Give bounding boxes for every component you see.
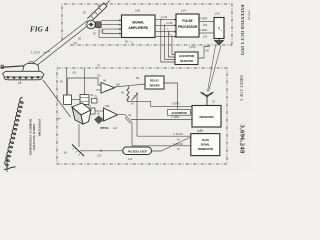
svg-text:D: D [169,33,171,36]
svg-text:114: 114 [181,9,186,13]
acquisition detector box 134 [175,52,198,65]
beam from enclosure into collimator [84,68,86,95]
pulsed laser [123,147,152,155]
svg-text:ROBERT S. CUNNINGHAM: ROBERT S. CUNNINGHAM [29,119,32,155]
svg-text:A 126: A 126 [161,16,168,19]
relay coil 86 [127,87,129,102]
pitch amp feed box [90,108,96,114]
detector output wires into amplifiers [99,20,122,37]
P SCAN wire [132,145,191,147]
svg-text:SIGNAL: SIGNAL [132,20,144,24]
signal amplifiers box 108 [122,15,156,38]
inventor signature script [5,97,24,166]
pulse processor box 114 [176,14,199,37]
svg-text:124: 124 [97,155,102,158]
receive antenna 52 [201,92,214,106]
svg-text:L.O.S.: L.O.S. [31,51,41,55]
P ERR wire [131,119,192,121]
svg-text:SCAN: SCAN [202,138,209,142]
photodetector box 90 [64,95,72,105]
acquisition boxed label [168,110,191,116]
wire detector to collimator [72,99,81,101]
svg-text:SIGNAL: SIGNAL [201,142,211,146]
wires amplifiers to pulse processor with taps [155,20,175,62]
svg-text:PITCH: PITCH [101,126,109,130]
svg-text:(74: (74 [73,41,77,45]
seeker telescope tube 56 [87,1,110,23]
svg-text:INVENTORS.: INVENTORS. [38,118,42,137]
svg-text:56: 56 [97,4,101,8]
svg-text:SHEET 2 OF 5: SHEET 2 OF 5 [239,75,243,101]
svg-text:60: 60 [125,40,129,44]
svg-text:136: 136 [205,50,210,53]
gimbal 54 [87,20,96,29]
svg-text:ACQUISITION: ACQUISITION [171,112,187,115]
svg-text:(54: (54 [197,129,201,133]
svg-text:V ERR: V ERR [172,102,180,106]
transmit antenna [215,39,224,45]
wires pulse processor to transmitter [199,22,214,34]
svg-text:122: 122 [128,158,133,161]
modulator cell 75 [92,99,98,104]
pitch amp output wires [118,115,133,146]
deflection mirror chip 46 [95,116,104,124]
svg-text:84: 84 [136,76,140,80]
svg-text:GENERATOR: GENERATOR [198,147,214,151]
svg-text:(134: (134 [190,45,196,49]
svg-text:130: 130 [215,12,220,16]
svg-text:P ERR: P ERR [172,115,180,119]
relay driver output to acquisition line [164,83,192,113]
switch arm and vertical to V SCAN [136,94,138,137]
svg-text:104: 104 [116,83,121,87]
relay driver box 84 [145,76,164,89]
svg-text:RECEIVER: RECEIVER [200,115,215,119]
line of sight beams tank to seeker [34,21,88,63]
svg-text:P ERR: P ERR [200,17,208,21]
svg-text:ACQUISITION: ACQUISITION [179,55,195,58]
photodetector wire from enclosure [66,68,68,95]
command link beams [209,46,222,92]
laser trigger wire [152,137,191,151]
acquisition detector output wire [198,47,210,59]
wire coil to V ERR line [128,101,192,106]
svg-text:DETECTOR: DETECTOR [180,60,193,63]
svg-text:PULSE: PULSE [182,19,192,23]
svg-text:106: 106 [105,104,110,108]
svg-text:18: 18 [18,81,22,85]
svg-text:V ERR: V ERR [200,28,208,32]
collimating lens cell 40 [80,95,89,105]
svg-text:PULSED LASER: PULSED LASER [128,150,147,154]
wire yaw amp to relay driver [115,84,146,87]
svg-text:158: 158 [203,35,208,38]
folding mirror 66 [72,145,84,157]
svg-text:FIG 4: FIG 4 [30,27,49,34]
svg-text:RELAY: RELAY [150,79,159,83]
pitch amplifier op-amp 106 [104,108,118,121]
scan signal generator box 154 [191,134,220,156]
svg-text:44: 44 [58,117,62,121]
svg-text:120: 120 [113,127,118,130]
laser beam to tank [43,80,71,117]
svg-text:156: 156 [203,24,208,27]
svg-text:PROCESSOR: PROCESSOR [178,25,198,29]
yaw amplifier op-amp 98 [101,83,115,94]
scanning prism 44 [72,103,91,124]
svg-text:S 128: S 128 [166,22,173,25]
svg-text:V SCAN: V SCAN [174,133,184,136]
ground unit dashed enclosure [57,68,227,164]
svg-text:DRIVER: DRIVER [150,84,160,88]
svg-text:(92: (92 [73,71,77,75]
receiver box [192,106,221,128]
svg-text:3.696.248: 3.696.248 [247,10,250,21]
svg-text:AMPLIFIERS: AMPLIFIERS [128,26,148,30]
svg-text:3,696,248: 3,696,248 [239,124,246,153]
svg-text:JOHN R. WOOTTON: JOHN R. WOOTTON [32,124,35,151]
laser beam to mirror [80,150,123,152]
svg-text:70: 70 [97,64,101,68]
V SCAN wire [137,135,191,137]
svg-text:108: 108 [135,9,140,13]
detector block at gimbal [96,22,102,28]
tank (target) [1,62,44,80]
transmitter box T1 130 [214,18,224,39]
wire detector to yaw amplifier [68,78,102,95]
svg-text:PATENTED OCT 3 1972: PATENTED OCT 3 1972 [240,5,245,56]
seeker head dashed enclosure 60 [62,4,232,45]
beam prism to mirror [78,124,80,147]
